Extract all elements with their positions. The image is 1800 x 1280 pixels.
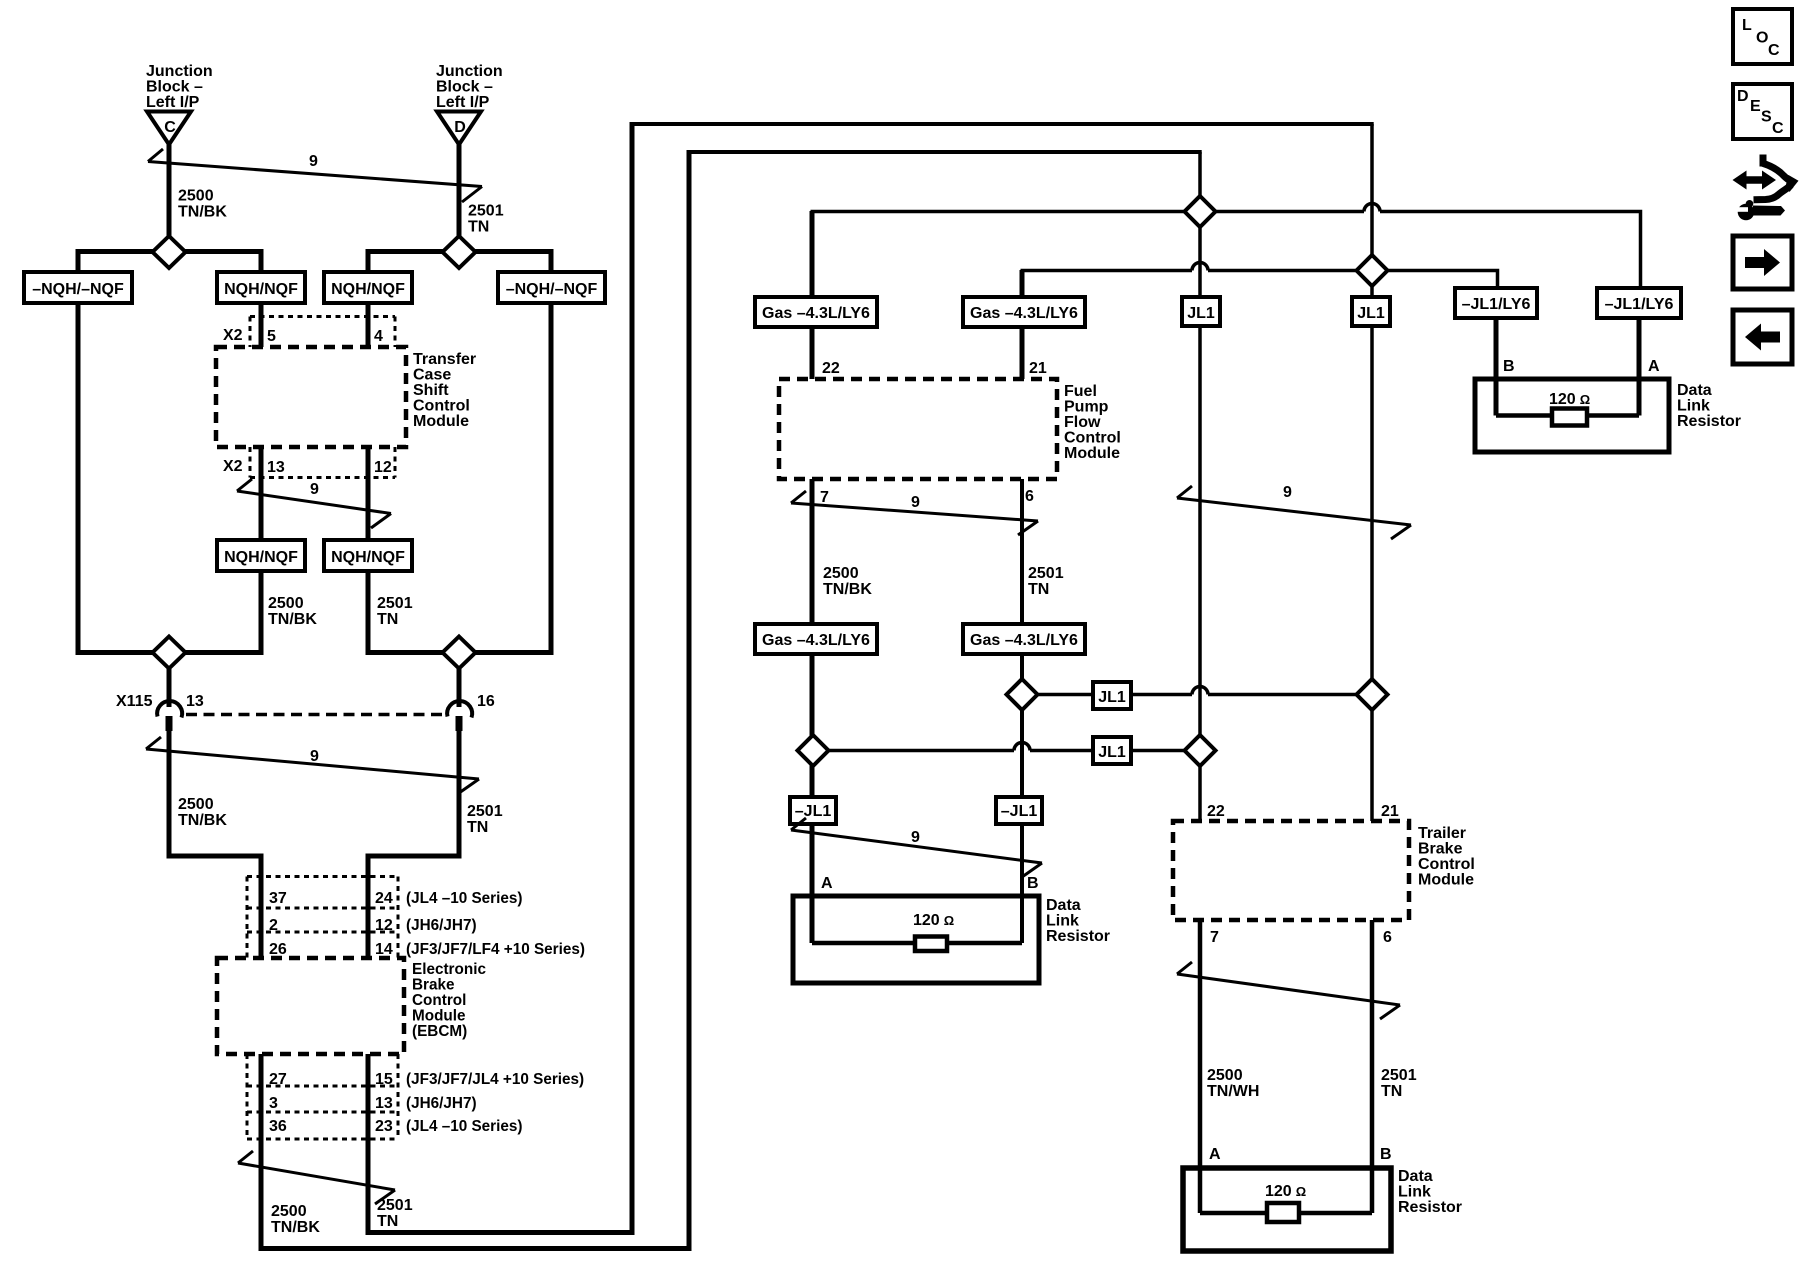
twisted pair symbol fuel pump	[791, 491, 1038, 535]
svg-text:Pump: Pump	[1064, 399, 1109, 416]
svg-text:TN/WH: TN/WH	[1207, 1083, 1259, 1100]
svg-text:Shift: Shift	[413, 382, 449, 399]
svg-text:JL1: JL1	[1098, 689, 1126, 706]
svg-text:21: 21	[1381, 803, 1399, 820]
wire TCSCM pin13 to NQH/NQF	[259, 447, 264, 540]
option box -NQH/-NQF right	[498, 272, 605, 303]
diamond splice right y652	[443, 637, 476, 669]
resistor trailer internal wire	[1200, 1211, 1372, 1216]
svg-text:22: 22	[1207, 803, 1225, 820]
option box NQH/NQF right-1	[324, 272, 412, 303]
svg-text:JL1: JL1	[1357, 305, 1385, 322]
svg-text:2500: 2500	[1207, 1067, 1243, 1084]
svg-text:9: 9	[1283, 484, 1292, 501]
svg-text:B: B	[1027, 875, 1039, 892]
svg-text:X2: X2	[223, 458, 243, 475]
svg-text:16: 16	[477, 693, 495, 710]
svg-text:B: B	[1503, 358, 1515, 375]
svg-text:C: C	[164, 119, 176, 136]
svg-text:TN/BK: TN/BK	[268, 611, 317, 628]
svg-text:12: 12	[375, 917, 393, 934]
svg-text:Data: Data	[1677, 382, 1712, 399]
svg-text:TN: TN	[467, 819, 488, 836]
option box -JL1/LY6 B	[1455, 288, 1537, 318]
svg-text:2500: 2500	[178, 188, 214, 205]
wire diamond y652 down to X115 connector right	[457, 652, 462, 707]
resistor trailer element	[1267, 1203, 1299, 1222]
svg-text:–JL1: –JL1	[1001, 803, 1038, 820]
label 2500 TN/BK lower	[178, 796, 227, 829]
svg-text:Case: Case	[413, 367, 451, 384]
label 2500 TN/BK (top C)	[178, 188, 227, 221]
svg-text:Gas –4.3L/LY6: Gas –4.3L/LY6	[762, 305, 870, 322]
svg-text:D: D	[454, 119, 466, 136]
trailer module label	[1418, 825, 1475, 889]
svg-text:Control: Control	[1064, 430, 1121, 447]
svg-text:Link: Link	[1398, 1184, 1431, 1201]
svg-text:9: 9	[911, 494, 920, 511]
svg-text:24: 24	[375, 890, 393, 907]
svg-text:13: 13	[267, 459, 285, 476]
diamond splice D row	[443, 236, 476, 268]
option box Gas -4.3L/LY6 no.3	[755, 624, 877, 654]
svg-text:Link: Link	[1046, 913, 1079, 930]
fuel pump module label	[1064, 383, 1121, 462]
svg-text:2500: 2500	[823, 565, 859, 582]
svg-text:Gas –4.3L/LY6: Gas –4.3L/LY6	[970, 632, 1078, 649]
X115 connector arc left	[157, 701, 182, 717]
svg-text:Resistor: Resistor	[1398, 1199, 1462, 1216]
svg-text:Left I/P: Left I/P	[146, 94, 200, 111]
option box -JL1 left	[790, 797, 836, 824]
data link resistor top label	[1677, 382, 1741, 430]
svg-text:2500: 2500	[178, 796, 214, 813]
wire NQH/NQF to TCSCM pin4	[366, 303, 371, 347]
twisted pair symbol trailer	[1177, 962, 1400, 1019]
label 2500 TN/WH trailer	[1207, 1067, 1259, 1100]
svg-text:A: A	[1209, 1146, 1221, 1163]
svg-text:Module: Module	[413, 413, 469, 430]
label 2500 TN/BK mid	[268, 595, 317, 628]
label 2501 TN trailer	[1381, 1067, 1417, 1100]
EBCM module box	[217, 958, 404, 1054]
diamond splice x1022 y694	[1007, 679, 1038, 710]
option box NQH/NQF row2 right	[324, 540, 412, 571]
icon arrow left box	[1733, 310, 1792, 364]
icon LOC box	[1733, 9, 1792, 64]
diamond splice left y652	[153, 637, 186, 669]
wire from junction D down to diamond	[457, 144, 462, 252]
svg-text:Module: Module	[412, 1008, 466, 1025]
twisted pair symbol X115	[146, 737, 479, 793]
svg-text:Brake: Brake	[412, 977, 455, 994]
svg-text:–NQH/–NQF: –NQH/–NQF	[506, 281, 598, 298]
svg-text:A: A	[1648, 358, 1660, 375]
wire from junction C down to diamond	[167, 144, 172, 252]
svg-text:Fuel: Fuel	[1064, 383, 1097, 400]
svg-text:–JL1/LY6: –JL1/LY6	[1605, 296, 1674, 313]
wire bus y750 from x812 diamond to x1200 diamond	[813, 743, 1200, 751]
svg-text:Control: Control	[1418, 856, 1475, 873]
transfer case shift control module box	[216, 347, 406, 447]
svg-text:12: 12	[374, 459, 392, 476]
option box Gas -4.3L/LY6 no.4	[963, 624, 1085, 654]
label 2500 TN/BK fuel	[823, 565, 872, 598]
data link resistor mid label	[1046, 897, 1110, 945]
option box JL1 no.2	[1352, 297, 1390, 326]
hop over x1022	[1014, 743, 1030, 751]
svg-text:Control: Control	[412, 992, 466, 1009]
svg-text:26: 26	[269, 941, 287, 958]
diamond splice x1200 y211	[1185, 196, 1216, 227]
TCSCM top connector pin row	[250, 317, 395, 348]
svg-text:120Ω: 120Ω	[1549, 391, 1590, 408]
svg-text:Flow: Flow	[1064, 414, 1101, 431]
X115 male terminal stub right	[456, 716, 463, 731]
svg-text:(JH6/JH7): (JH6/JH7)	[406, 1095, 477, 1112]
wire left outer loop x78 down to y652 splice	[78, 303, 261, 653]
wire gas 2500 branch vertical x812	[810, 211, 815, 379]
svg-text:9: 9	[310, 748, 319, 765]
svg-text:9: 9	[911, 829, 920, 846]
svg-text:–JL1/LY6: –JL1/LY6	[1462, 296, 1531, 313]
wire fuel pump pin7 down to resistor	[810, 479, 815, 943]
svg-text:5: 5	[267, 328, 276, 345]
label 2501 TN mid	[377, 595, 413, 628]
svg-text:21: 21	[1029, 360, 1047, 377]
svg-text:Electronic: Electronic	[412, 961, 486, 978]
wire X115 left down and jog to EBCM pin col left	[169, 731, 261, 958]
svg-text:9: 9	[309, 153, 318, 170]
svg-text:120Ω: 120Ω	[913, 912, 954, 929]
svg-text:14: 14	[375, 941, 393, 958]
wire fuel pump pin6 down to resistor	[1020, 479, 1024, 943]
svg-text:2: 2	[269, 917, 278, 934]
svg-text:Resistor: Resistor	[1046, 928, 1110, 945]
svg-text:Module: Module	[1064, 445, 1120, 462]
svg-text:TN/BK: TN/BK	[823, 581, 872, 598]
svg-text:2501: 2501	[1381, 1067, 1417, 1084]
option box NQH/NQF left-2	[217, 272, 305, 303]
junction block C label	[146, 63, 213, 111]
svg-text:(JH6/JH7): (JH6/JH7)	[406, 917, 477, 934]
twisted pair symbol top (C-D)	[148, 149, 482, 202]
diamond splice x813 y750	[798, 735, 829, 766]
trailer brake control module box	[1173, 821, 1409, 920]
svg-text:Brake: Brake	[1418, 841, 1463, 858]
wire NQH/NQF to TCSCM pin5	[259, 303, 264, 347]
wire -JL1/LY6 A drop x1639	[1637, 318, 1642, 416]
svg-text:7: 7	[1210, 929, 1219, 946]
label 2501 TN bottom	[377, 1197, 413, 1230]
svg-text:(EBCM): (EBCM)	[412, 1023, 467, 1040]
svg-text:22: 22	[822, 360, 840, 377]
wire EBCM bottom pins left column	[259, 1054, 264, 1139]
resistor top element	[1552, 409, 1587, 426]
option box -NQH/-NQF left	[24, 272, 132, 303]
svg-text:X115: X115	[116, 693, 153, 710]
svg-text:Link: Link	[1677, 398, 1710, 415]
label 2500 TN/BK bottom	[271, 1203, 320, 1236]
X115 connector arc right	[447, 701, 472, 717]
svg-text:C: C	[1768, 42, 1780, 59]
icon arrow right box	[1733, 236, 1792, 289]
svg-text:2500: 2500	[271, 1203, 307, 1220]
svg-text:120Ω: 120Ω	[1265, 1183, 1306, 1200]
svg-text:Module: Module	[1418, 872, 1474, 889]
svg-text:TN/BK: TN/BK	[178, 204, 227, 221]
svg-text:JL1: JL1	[1098, 744, 1126, 761]
option box -JL1 right	[996, 797, 1042, 824]
svg-text:X2: X2	[223, 327, 243, 344]
svg-text:(JF3/JF7/LF4 +10 Series): (JF3/JF7/LF4 +10 Series)	[406, 941, 585, 958]
data link resistor trailer box	[1183, 1168, 1391, 1251]
wire 2500 long loop: EBCM pin36 down, bottom, up, top, down to trailer pin 22	[261, 150, 1202, 1249]
svg-text:S: S	[1761, 109, 1772, 126]
resistor mid element	[915, 937, 947, 952]
icon arrows and wrench	[1733, 155, 1799, 221]
wire TCSCM pin12 to NQH/NQF	[366, 447, 371, 540]
wire diamond y652 down to X115 connector left	[167, 652, 172, 707]
svg-text:Trailer: Trailer	[1418, 825, 1466, 842]
svg-text:36: 36	[269, 1118, 287, 1135]
twisted pair symbol data link mid	[791, 818, 1042, 877]
hop over x1200	[1192, 263, 1208, 271]
svg-text:4: 4	[374, 328, 383, 345]
wire bus 2501 horizontal y270	[1021, 263, 1498, 289]
svg-text:6: 6	[1383, 929, 1392, 946]
twisted pair symbol TCSCM	[237, 479, 391, 528]
svg-text:E: E	[1750, 98, 1761, 115]
twisted pair symbol EBCM bottom	[238, 1151, 395, 1204]
svg-text:Transfer: Transfer	[413, 351, 476, 368]
svg-text:Left I/P: Left I/P	[436, 94, 490, 111]
svg-text:Gas –4.3L/LY6: Gas –4.3L/LY6	[970, 305, 1078, 322]
data link resistor mid box	[793, 896, 1039, 983]
svg-text:6: 6	[1025, 488, 1034, 505]
wire splice row C: left to -NQH/-NQF, right to NQH/NQF	[78, 252, 261, 273]
junction block triangle D	[437, 112, 481, 145]
fuel pump flow control module box	[779, 379, 1057, 479]
wire -JL1/LY6 B drop x1496	[1494, 318, 1499, 416]
X115 dashed mate line	[186, 713, 446, 717]
option box JL1 mid no.1	[1093, 682, 1131, 709]
wire bus 2500 top horizontal y211	[811, 204, 1641, 289]
EBCM top connector pin rows	[247, 877, 398, 959]
twisted pair symbol JL1 verticals	[1177, 486, 1411, 539]
svg-text:NQH/NQF: NQH/NQF	[224, 281, 298, 298]
svg-text:27: 27	[269, 1071, 287, 1088]
svg-text:TN: TN	[377, 611, 398, 628]
diamond splice x1372 y694	[1357, 679, 1388, 710]
hop over x1200	[1192, 687, 1208, 695]
option box Gas -4.3L/LY6 no.2	[963, 297, 1085, 327]
svg-text:(JL4 –10 Series): (JL4 –10 Series)	[406, 1118, 523, 1135]
svg-text:NQH/NQF: NQH/NQF	[331, 281, 405, 298]
svg-text:TN/BK: TN/BK	[178, 812, 227, 829]
svg-text:–NQH/–NQF: –NQH/–NQF	[32, 281, 124, 298]
diamond splice x1372 y270	[1357, 255, 1388, 286]
svg-text:D: D	[1737, 88, 1749, 105]
label 2501 TN (top D)	[468, 203, 504, 236]
svg-text:Block –: Block –	[146, 79, 203, 96]
label 2501 TN lower	[467, 803, 503, 836]
EBCM label	[412, 961, 486, 1040]
svg-text:Data: Data	[1046, 897, 1081, 914]
option box Gas -4.3L/LY6 no.1	[755, 297, 877, 327]
svg-text:TN: TN	[1028, 581, 1049, 598]
svg-text:23: 23	[375, 1118, 393, 1135]
transfer case module label	[413, 351, 476, 430]
option box NQH/NQF row2 left	[217, 540, 305, 571]
svg-text:Gas –4.3L/LY6: Gas –4.3L/LY6	[762, 632, 870, 649]
svg-text:2501: 2501	[377, 595, 413, 612]
svg-text:2501: 2501	[468, 203, 504, 220]
svg-text:C: C	[1772, 120, 1784, 137]
option box JL1 no.1	[1182, 297, 1220, 326]
svg-text:TN: TN	[468, 219, 489, 236]
svg-text:3: 3	[269, 1095, 278, 1112]
svg-text:15: 15	[375, 1071, 393, 1088]
option box -JL1/LY6 A	[1597, 288, 1681, 318]
diamond splice C row	[153, 236, 186, 268]
svg-text:2501: 2501	[467, 803, 503, 820]
svg-text:O: O	[1756, 30, 1768, 47]
svg-text:7: 7	[820, 489, 829, 506]
wire trailer module pin7 down to data link resistor	[1198, 920, 1203, 1213]
svg-text:13: 13	[186, 693, 204, 710]
svg-text:TN/BK: TN/BK	[271, 1219, 320, 1236]
wire gas 2501 branch vertical x1022	[1020, 270, 1025, 379]
svg-text:Junction: Junction	[146, 63, 213, 80]
EBCM bottom connector pin rows	[247, 1054, 398, 1139]
svg-text:13: 13	[375, 1095, 393, 1112]
label 2501 TN fuel	[1028, 565, 1064, 598]
svg-text:B: B	[1380, 1146, 1392, 1163]
option box JL1 mid no.2	[1093, 737, 1131, 764]
wire X115 right down and jog to EBCM pin col right	[368, 731, 459, 958]
svg-text:TN: TN	[1381, 1083, 1402, 1100]
svg-text:2501: 2501	[1028, 565, 1064, 582]
hop over x1372	[1364, 204, 1380, 212]
wire bus y694 from x1022 diamond to x1372 diamond	[1022, 687, 1372, 695]
svg-text:NQH/NQF: NQH/NQF	[224, 549, 298, 566]
svg-text:Block –: Block –	[436, 79, 493, 96]
icon DESC box	[1733, 84, 1792, 139]
svg-text:Data: Data	[1398, 1168, 1433, 1185]
svg-text:Control: Control	[413, 398, 470, 415]
svg-text:L: L	[1742, 17, 1752, 34]
wire trailer module pin6 down to data link resistor	[1370, 920, 1375, 1213]
svg-text:37: 37	[269, 890, 287, 907]
svg-text:A: A	[821, 875, 833, 892]
svg-text:(JF3/JF7/JL4 +10 Series): (JF3/JF7/JL4 +10 Series)	[406, 1071, 584, 1088]
svg-text:9: 9	[310, 481, 319, 498]
wire splice row D	[368, 252, 551, 273]
svg-text:2500: 2500	[268, 595, 304, 612]
svg-text:(JL4 –10 Series): (JL4 –10 Series)	[406, 890, 523, 907]
wire right outer loop x551 down to y652 splice	[368, 303, 551, 653]
svg-text:–JL1: –JL1	[795, 803, 832, 820]
svg-text:TN: TN	[377, 1213, 398, 1230]
junction block triangle C	[147, 112, 191, 145]
resistor mid internal wire	[812, 941, 1022, 946]
svg-text:Junction: Junction	[436, 63, 503, 80]
svg-text:NQH/NQF: NQH/NQF	[331, 549, 405, 566]
junction block D label	[436, 63, 503, 111]
X115 male terminal stub left	[166, 716, 173, 731]
diamond splice x1200 y750	[1185, 735, 1216, 766]
data link resistor top box	[1475, 379, 1669, 452]
svg-text:2501: 2501	[377, 1197, 413, 1214]
resistor top internal wire	[1496, 413, 1639, 418]
TCSCM bottom connector pin row	[250, 447, 395, 478]
wire 2501 long loop: EBCM pin23 down, bottom right, up, top right, down to trailer pin 21	[368, 122, 1374, 1233]
wire EBCM bottom pins right column	[366, 1054, 371, 1139]
svg-text:JL1: JL1	[1187, 305, 1215, 322]
svg-text:Resistor: Resistor	[1677, 413, 1741, 430]
data link resistor trailer label	[1398, 1168, 1462, 1216]
